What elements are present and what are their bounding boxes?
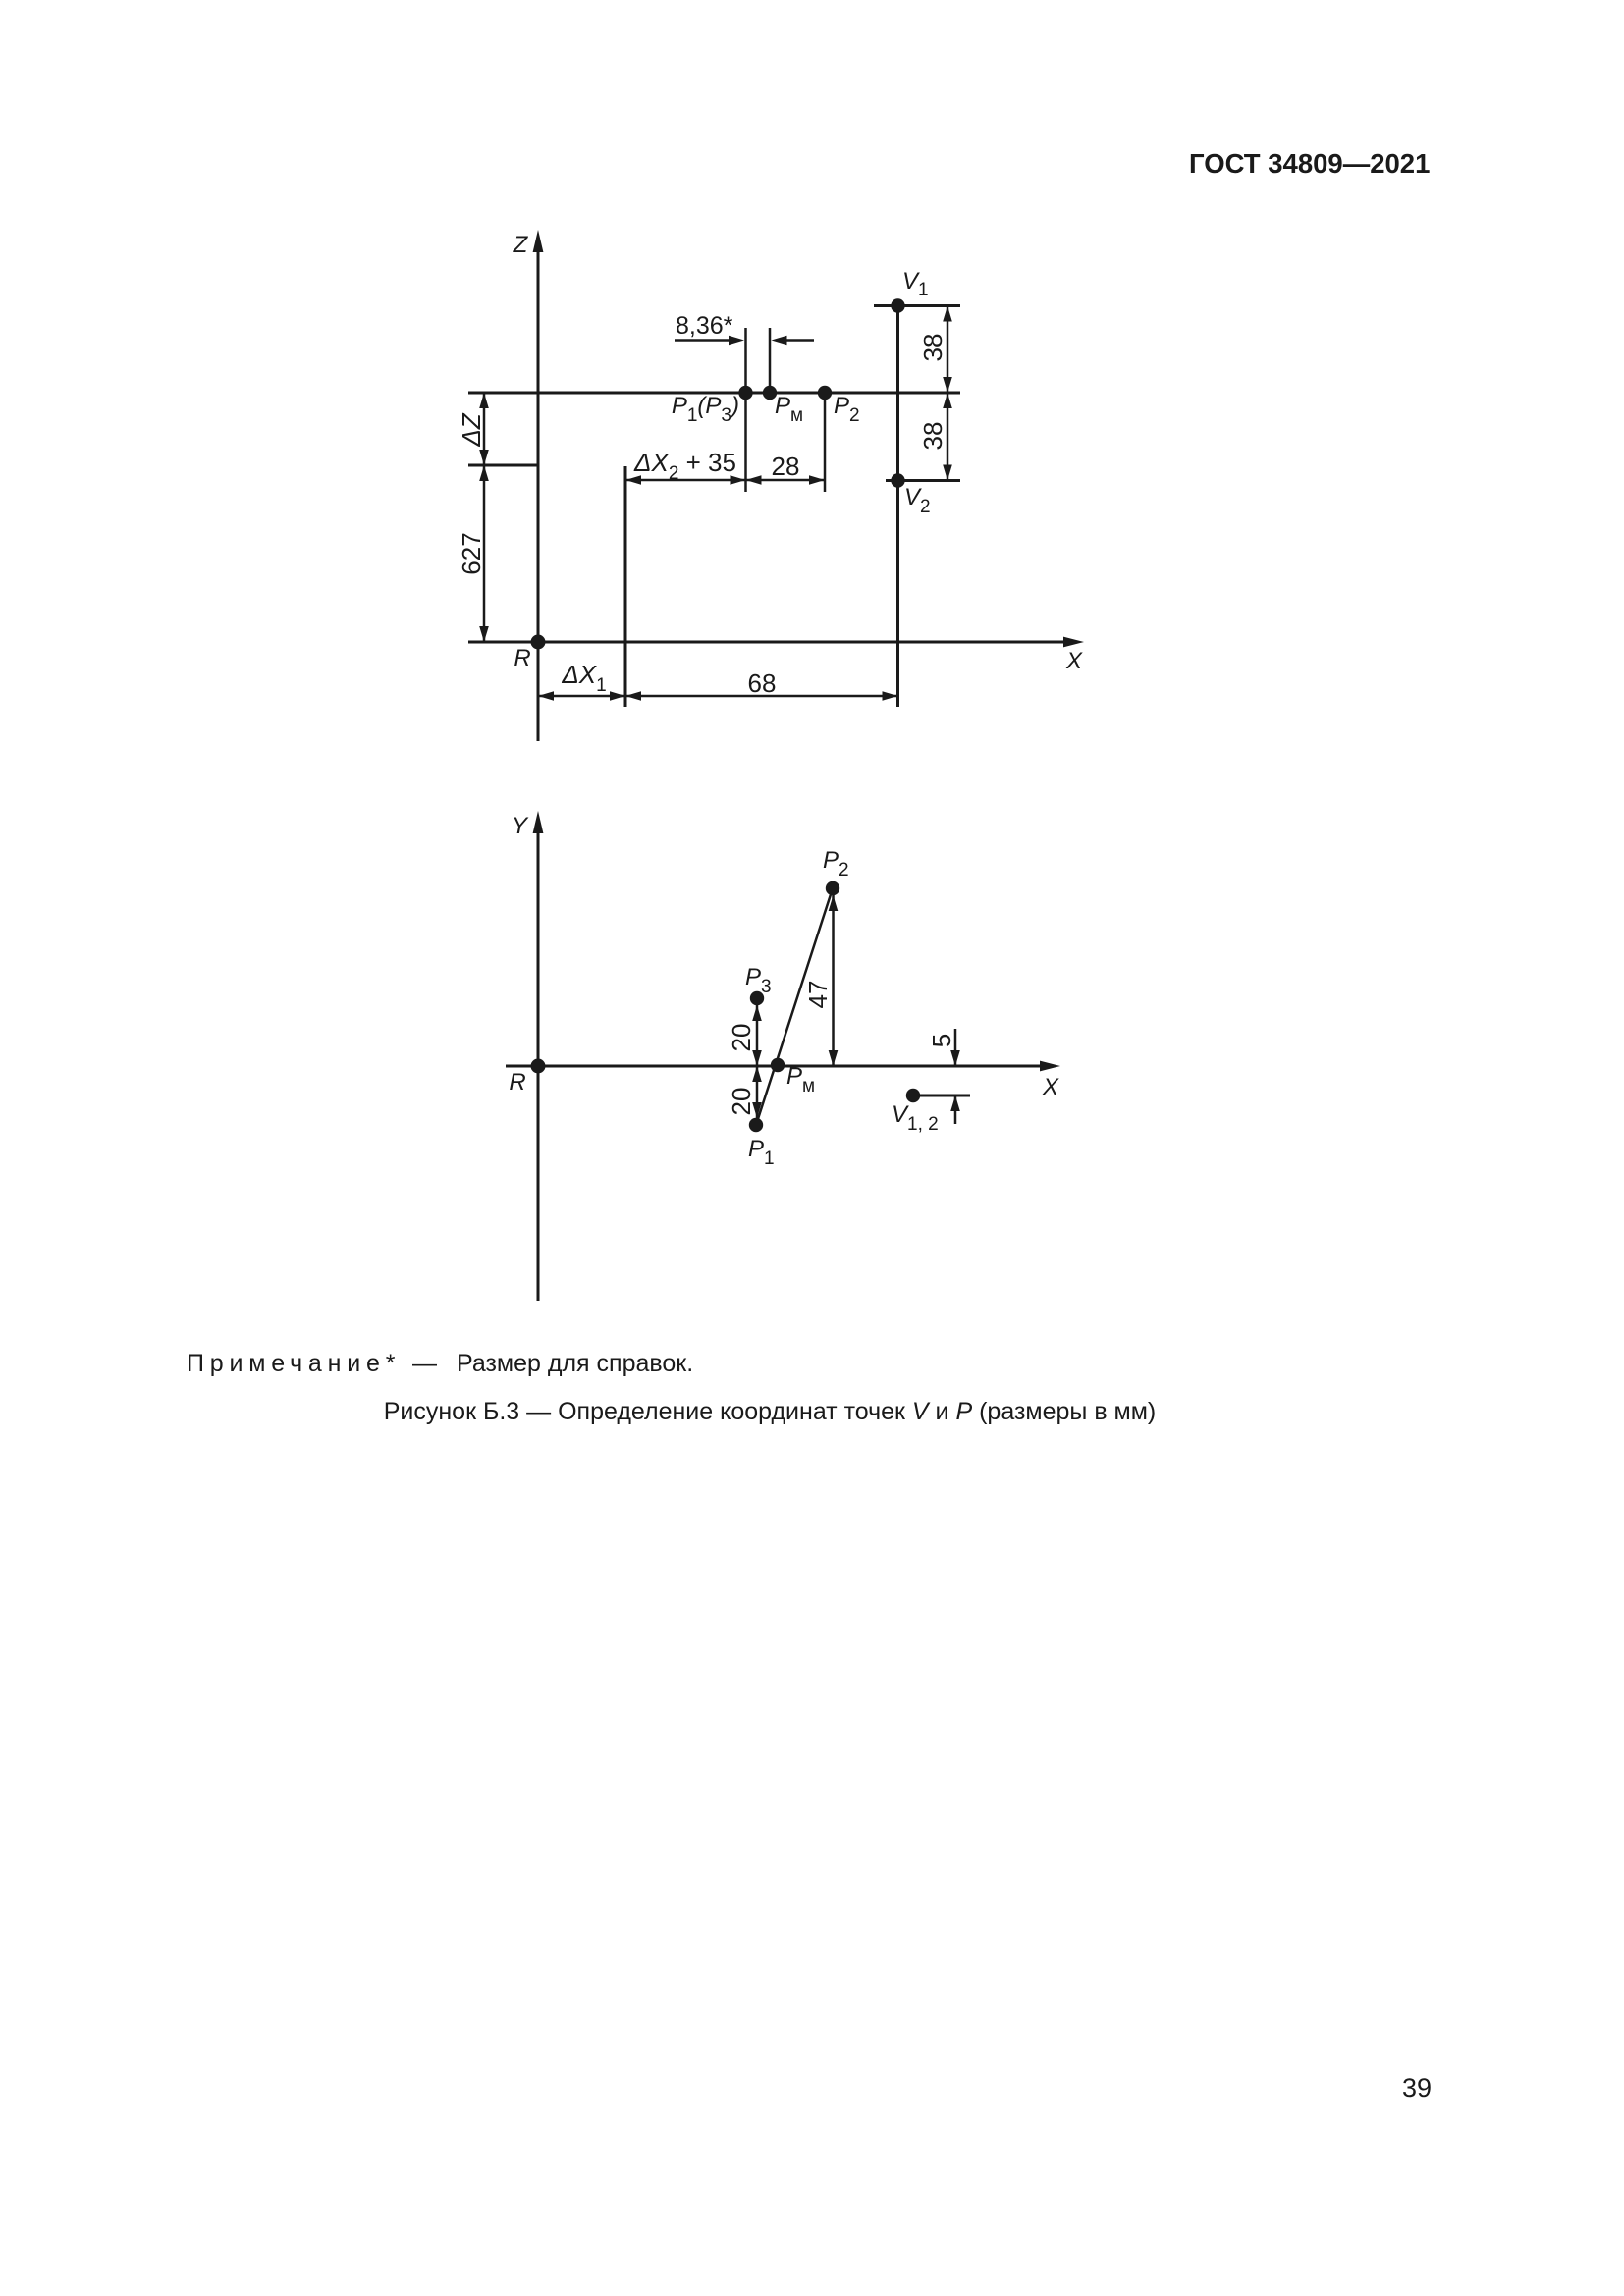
V2 tick line [886,479,960,482]
extension line above Pm (8,36 dim) [769,328,772,393]
svg-text:P1(P3): P1(P3) [672,393,739,426]
X axis arrowhead [1063,637,1084,648]
svg-text:P1: P1 [748,1136,775,1169]
delta-Z dimension line [483,393,486,465]
38 upper dimension line [947,306,949,394]
Z axis [537,247,540,741]
47 dimension line [832,895,835,1066]
svg-text:68: 68 [748,668,777,698]
8,36 left-pointing arrowhead [772,336,787,346]
38 lower dim bottom arrowhead [943,465,952,481]
svg-text:20: 20 [727,1024,756,1052]
X axis (bottom) arrowhead [1040,1061,1060,1072]
svg-text:R: R [509,1069,525,1095]
svg-text:P2: P2 [823,847,849,881]
svg-text:8,36*: 8,36* [676,312,733,340]
20 lower bottom arrowhead [752,1102,762,1118]
delta-Z lower reference line [468,464,538,467]
svg-text:38: 38 [918,334,947,362]
svg-text:Рисунок Б.3 — Определение коор: Рисунок Б.3 — Определение координат точе… [384,1398,1157,1425]
20 lower top arrowhead [752,1066,762,1082]
20 upper bottom arrowhead [752,1050,762,1066]
point P1 bottom [749,1118,763,1132]
point P3 bottom [750,991,764,1005]
point V1,2 [906,1089,920,1102]
V1-V2 vertical line [896,306,899,708]
extension line below P2 (28 dim) [824,393,827,492]
P level line [468,392,960,395]
28 left arrowhead [746,475,762,485]
47 top arrowhead [829,895,839,911]
627 bottom arrowhead [479,626,489,642]
svg-text:20: 20 [727,1088,756,1116]
extension line below P1 (28 dim) [744,393,747,492]
svg-text:X: X [1065,648,1083,674]
point P2 top [818,386,832,400]
dX2+35 left arrowhead [625,475,641,485]
5 dim up arrowhead [950,1095,960,1111]
X axis [468,641,1066,644]
68 left arrowhead [625,691,641,701]
delta-Z bottom arrowhead [479,450,489,465]
svg-text:38: 38 [918,422,947,451]
svg-text:V1: V1 [902,268,929,300]
point R (top diagram origin) [531,635,546,650]
svg-text:V2: V2 [904,484,931,517]
38 lower dim top arrowhead [943,393,952,408]
point P1(P3) top [738,386,752,400]
dX1 left arrowhead [538,691,554,701]
8,36 dimension line left [675,339,731,342]
5 dim lower extension with arrow [954,1095,957,1124]
20 upper top arrowhead [752,1005,762,1021]
svg-text:X: X [1042,1074,1059,1100]
point Pm top [763,386,777,400]
627 top arrowhead [479,465,489,481]
svg-text:28: 28 [772,452,800,481]
svg-text:627: 627 [457,532,486,574]
Y axis [537,828,540,1301]
svg-text:P2: P2 [834,393,860,426]
38 lower dimension line [947,393,949,481]
5 dim upper extension with arrow [954,1029,957,1066]
68 right arrowhead [883,691,898,701]
svg-text:ГОСТ 34809—2021: ГОСТ 34809—2021 [1189,148,1430,179]
28 right arrowhead [809,475,825,485]
dX2+35 right arrowhead [731,475,746,485]
point V1 [891,298,904,312]
dX2+35 extension vertical line [624,466,627,707]
20 lower dimension line [756,1066,759,1118]
X axis (bottom) [506,1065,1043,1068]
svg-text:ΔX1: ΔX1 [561,660,606,696]
Z axis arrowhead [533,230,544,252]
dX1 dimension line [538,695,625,698]
svg-text:47: 47 [803,981,833,1009]
svg-text:ΔZ: ΔZ [457,412,486,447]
svg-text:Pм: Pм [786,1063,815,1096]
38 upper dim top arrowhead [943,306,952,322]
svg-text:R: R [514,645,530,671]
dX2+35 dimension line [625,479,746,482]
point Pm bottom [771,1058,785,1072]
point R (bottom diagram origin) [531,1059,546,1074]
38 upper dim bottom arrowhead [943,377,952,393]
svg-text:ΔX2 + 35: ΔX2 + 35 [633,448,736,484]
68 dimension line [625,695,898,698]
svg-text:Y: Y [512,813,529,839]
svg-text:V1, 2: V1, 2 [892,1101,939,1135]
extension line above P1 (8,36 dim) [744,328,747,393]
Y axis arrowhead [533,811,544,833]
8,36 right-pointing arrowhead [729,336,744,346]
svg-text:Z: Z [513,232,529,258]
20 upper dimension line [756,1005,759,1066]
627 dimension line [483,465,486,642]
5 dim down arrowhead [950,1050,960,1066]
point P2 bottom [826,881,839,895]
dX1 right arrowhead [610,691,625,701]
8,36 dimension line right [785,339,814,342]
delta-Z top arrowhead [479,393,489,408]
svg-text:Примечание*—Размер для справок: Примечание*—Размер для справок. [187,1350,693,1377]
svg-text:5: 5 [927,1034,956,1047]
V1,2 tick line [913,1095,970,1097]
svg-text:Pм: Pм [775,393,803,426]
line P1-P2 [756,888,833,1125]
svg-text:39: 39 [1402,2073,1432,2103]
point V2 [891,473,904,487]
V1 tick line [874,304,960,307]
28 dimension line [746,479,826,482]
47 bottom arrowhead [829,1050,839,1066]
